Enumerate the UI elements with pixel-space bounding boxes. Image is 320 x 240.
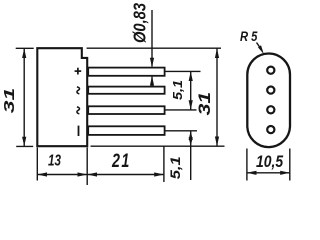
left 31 dimension line (23, 48, 25, 146)
arrowhead 21 right (154, 172, 164, 176)
svg-text:5,1: 5,1 (167, 156, 183, 179)
svg-text:21: 21 (111, 150, 131, 171)
body outline (side view of rectifier block) (37, 48, 87, 146)
arrowhead right-5,1 top (189, 71, 193, 81)
right 31 dimension line (216, 48, 218, 146)
plus marking (75, 68, 82, 75)
pin 4 (- lead) (88, 126, 164, 135)
arrowhead right-5,1 bottom (189, 100, 193, 110)
pin 2 (~ lead) (88, 87, 164, 94)
arrowhead R5 (258, 45, 264, 54)
lower 5,1 dimension line (pin4 to body bottom) (190, 131, 192, 180)
svg-text:10,5: 10,5 (256, 153, 284, 171)
R5 leader line (257, 43, 263, 51)
hole 1 (267, 67, 274, 74)
bottom dimension extension lines (36, 148, 38, 181)
minus marking (78, 126, 80, 136)
svg-text:31: 31 (196, 92, 214, 116)
arrowhead 21 left (87, 172, 97, 176)
tilde marking (pin 2) (77, 87, 80, 94)
tilde marking (pin 3) (77, 107, 80, 114)
arrowhead right-31 top (215, 48, 219, 58)
svg-text:Ø0,83: Ø0,83 (130, 3, 149, 43)
pin 3 (~ lead) (88, 106, 164, 114)
top extension line from body top to right 31 dim (87, 47, 221, 49)
left 31 dimension: extension ticks (16, 47, 34, 49)
oval outline (top view, stadium) (247, 54, 290, 148)
arrowhead dia0,83 up (tip at pin1 bottom) (150, 76, 154, 86)
pin4 extension line (166, 130, 198, 132)
arrowhead dia0,83 down (tip at pin1 top) (150, 58, 154, 68)
svg-text:5,1: 5,1 (170, 80, 185, 100)
right 5,1 dimension line (pin1 to pin3) (190, 71, 192, 110)
dia 0,83 leader line (151, 10, 153, 67)
arrowhead 10,5 right (280, 171, 290, 175)
svg-text:31: 31 (1, 88, 18, 114)
hole 3 (267, 106, 274, 113)
bottom extension line from body bottom to right (91, 145, 225, 147)
pin1 extension line (166, 70, 201, 72)
arrowhead right-31 bottom (215, 137, 219, 147)
arrowhead 10,5 left (247, 171, 257, 175)
bottom dimension line 13 / 21 (37, 174, 164, 176)
hole 2 (267, 87, 274, 94)
10,5 dimension line (247, 172, 290, 174)
svg-text:R 5: R 5 (240, 29, 258, 44)
arrowhead lower-5,1 down (189, 137, 193, 146)
pin3 extension line (166, 109, 197, 111)
arrowhead left-31 bottom (22, 137, 26, 147)
arrowhead 13 right (78, 172, 88, 176)
10,5 extension lines (246, 149, 248, 181)
svg-text:13: 13 (48, 151, 61, 169)
hole 4 (267, 126, 274, 133)
arrowhead 13 left (37, 172, 47, 176)
pin 1 (+ lead) (88, 68, 164, 76)
arrowhead lower-5,1 up (189, 131, 193, 140)
dia 0,83 opposing arrow shaft (151, 77, 153, 87)
arrowhead left-31 top (22, 48, 26, 58)
